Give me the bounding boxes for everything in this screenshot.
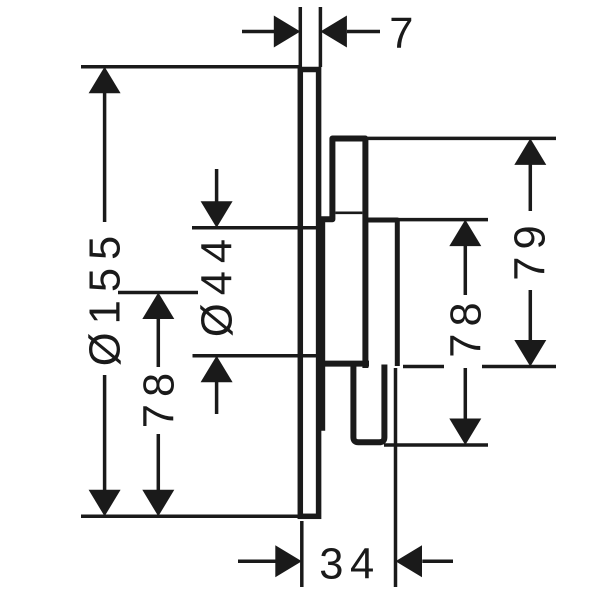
extension line mid top (78 right)	[398, 218, 488, 222]
plate Ø155 escutcheon (side view)	[300, 70, 318, 517]
extension line 7 right	[319, 7, 323, 67]
mid housing bottom edge	[319, 361, 369, 367]
arrowhead Ø44 bottom	[201, 356, 233, 383]
arrowhead Ø155 bottom	[89, 490, 121, 517]
dimension line 78 left stems	[157, 318, 161, 367]
dimension line 7 stems	[242, 30, 275, 34]
arrowhead 79 top	[514, 138, 546, 165]
arrowhead Ø155 top	[89, 67, 121, 94]
dimension line Ø155 stems	[103, 92, 107, 222]
sleeve outline (top cylinder)	[318, 139, 365, 369]
svg-text:Ø155: Ø155	[82, 228, 130, 366]
svg-text:7: 7	[389, 10, 413, 58]
svg-text:34: 34	[319, 541, 380, 589]
extension line protrusion bottom (78 right)	[384, 443, 488, 447]
arrowhead 78 left top	[142, 293, 174, 320]
arrowhead 34 left	[275, 545, 302, 577]
svg-text:78: 78	[443, 295, 491, 357]
arrowhead Ø44 top	[201, 201, 233, 228]
extension line body bottom (79) seg b	[482, 365, 556, 369]
extension line plate top (Ø155)	[81, 65, 299, 69]
extension line 34 left	[300, 521, 304, 587]
extension line Ø44 bottom	[193, 354, 321, 358]
svg-text:79: 79	[506, 218, 554, 280]
lower protrusion outline	[353, 364, 384, 442]
arrowhead 79 bottom	[514, 340, 546, 367]
extension line 7 left	[299, 7, 303, 67]
arrowhead 78 left bottom	[142, 490, 174, 517]
svg-text:Ø44: Ø44	[194, 231, 242, 337]
left vertical bar	[320, 219, 326, 431]
extension line Ø44 top	[192, 226, 318, 230]
sleeve bottom thin edge	[335, 212, 362, 215]
arrowhead 7 left	[274, 16, 301, 48]
arrowhead 78 right bottom	[449, 419, 481, 446]
extension line plate bottom (Ø155 / 78)	[81, 515, 299, 519]
arrowhead 78 right top	[449, 220, 481, 247]
dimension line 78 right stems	[464, 246, 468, 296]
extension line sleeve top (79)	[368, 137, 556, 141]
extension line body bottom (79) seg a	[403, 365, 444, 369]
arrowhead 7 right	[320, 16, 347, 48]
svg-text:78: 78	[136, 366, 184, 428]
arrowhead 34 right	[396, 545, 423, 577]
mid housing outline	[365, 220, 397, 366]
dimension line 79 stems	[529, 164, 533, 211]
extension line 34 right	[394, 368, 398, 587]
extension line centerline (78 left top)	[118, 291, 198, 295]
dimension line Ø44 stems	[215, 169, 219, 202]
dimension line 34 stems	[238, 560, 276, 564]
